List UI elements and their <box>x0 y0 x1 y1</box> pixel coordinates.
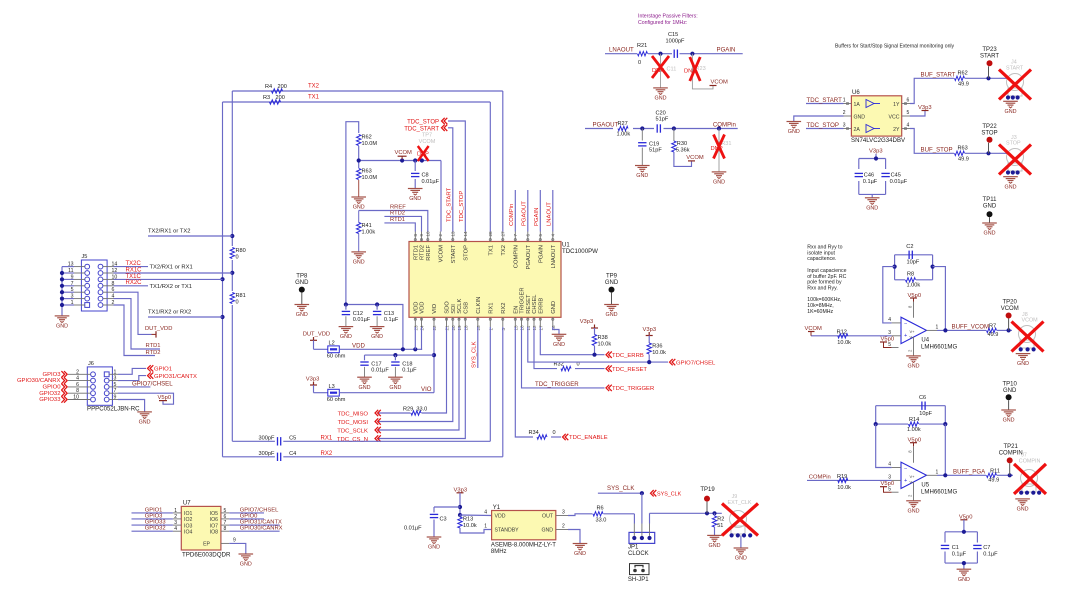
connector J7 DNP <box>1014 452 1046 494</box>
wire J5 row3 TX1C <box>114 274 223 280</box>
svg-text:VDD: VDD <box>420 302 426 314</box>
svg-text:GND: GND <box>574 551 586 557</box>
svg-text:1: 1 <box>114 369 117 375</box>
svg-text:TDC_MOSI: TDC_MOSI <box>338 420 369 426</box>
svg-text:GND: GND <box>353 260 365 266</box>
svg-text:LNAOUT: LNAOUT <box>551 245 557 269</box>
svg-text:10pF: 10pF <box>919 411 932 417</box>
svg-text:C18: C18 <box>402 361 412 367</box>
svg-text:R12: R12 <box>837 330 847 336</box>
capacitor C20 <box>656 111 736 133</box>
svg-text:TDC_STOP: TDC_STOP <box>407 120 439 126</box>
svg-text:BUF_START: BUF_START <box>921 72 956 79</box>
svg-text:TDC_START: TDC_START <box>404 126 439 132</box>
resistor R3 <box>263 95 320 105</box>
svg-text:3: 3 <box>888 474 891 480</box>
svg-text:CSB: CSB <box>463 302 469 314</box>
svg-text:VIO: VIO <box>421 386 432 393</box>
wire VCOM input U4 <box>805 326 892 336</box>
note buffer RC <box>807 245 846 315</box>
wire C46 C45 rails <box>859 156 886 197</box>
ground J3 <box>1003 177 1018 191</box>
svg-text:0.01µF: 0.01µF <box>404 526 422 532</box>
wire VIO rail <box>339 327 436 393</box>
svg-text:R14: R14 <box>909 417 919 423</box>
svg-text:R30: R30 <box>677 141 687 147</box>
svg-text:0.1µF: 0.1µF <box>384 317 399 323</box>
resistor R32 label <box>554 362 580 368</box>
svg-text:DNP: DNP <box>652 68 664 74</box>
svg-text:4: 4 <box>550 234 555 237</box>
svg-text:51pF: 51pF <box>649 148 662 154</box>
wire VCOM to pin2 <box>440 161 442 232</box>
svg-text:PGAOUT: PGAOUT <box>526 245 532 270</box>
svg-text:C5: C5 <box>289 435 296 441</box>
svg-text:RX2: RX2 <box>321 451 333 457</box>
svg-text:R7: R7 <box>989 323 996 329</box>
wire U4 feedback <box>883 255 946 331</box>
svg-text:GPIO32: GPIO32 <box>39 391 60 397</box>
svg-text:RTD2: RTD2 <box>420 245 426 260</box>
svg-text:TDC_ENABLE: TDC_ENABLE <box>569 435 608 441</box>
svg-text:200: 200 <box>276 95 285 101</box>
port GPIO1 <box>148 365 173 372</box>
resistor R41 <box>357 211 376 252</box>
resistor R27 <box>617 121 631 138</box>
resistor R30 <box>672 129 692 167</box>
svg-text:PGAIN: PGAIN <box>717 47 736 54</box>
resistor R63 <box>357 169 378 181</box>
svg-text:R3: R3 <box>263 95 270 101</box>
svg-text:5.36k: 5.36k <box>676 147 690 153</box>
svg-text:GND: GND <box>428 545 440 551</box>
svg-text:EN: EN <box>513 306 519 314</box>
svg-text:2: 2 <box>174 514 177 520</box>
svg-text:R29 33.0: R29 33.0 <box>403 406 427 412</box>
svg-text:GPIO33: GPIO33 <box>39 397 61 403</box>
ground U7 <box>239 554 254 568</box>
ground C19 <box>635 166 650 180</box>
svg-text:0.01µF: 0.01µF <box>353 317 371 323</box>
wire VDD pins <box>415 327 422 349</box>
capacitor C12 <box>342 305 371 327</box>
svg-text:TDC1000PW: TDC1000PW <box>562 248 598 255</box>
svg-text:TDC_STOP: TDC_STOP <box>459 191 465 222</box>
svg-text:GPIO32: GPIO32 <box>145 526 166 532</box>
wire TDC_START <box>448 128 453 232</box>
port TDC_START <box>404 125 447 133</box>
svg-text:GPIO30/CANRX: GPIO30/CANRX <box>240 526 283 532</box>
wire divider mid <box>357 146 441 168</box>
svg-text:C7: C7 <box>983 545 990 551</box>
wire J6 pin9 gnd <box>118 400 145 412</box>
svg-text:0: 0 <box>638 60 641 66</box>
svg-text:V5p0: V5p0 <box>158 395 172 401</box>
capacitor C11 DNP <box>652 54 676 88</box>
svg-text:PGAIN: PGAIN <box>538 245 544 263</box>
svg-text:Y1: Y1 <box>493 505 501 511</box>
svg-text:RX2C: RX2C <box>126 280 143 286</box>
power VCOM flag <box>395 150 413 160</box>
svg-text:3: 3 <box>888 330 891 336</box>
connector JP1 CLOCK <box>628 524 655 558</box>
svg-text:capacitence.: capacitence. <box>807 256 836 262</box>
svg-text:GND: GND <box>984 231 996 237</box>
svg-text:R38: R38 <box>598 335 608 341</box>
ground C8 <box>408 189 423 203</box>
port GPIO3 <box>42 371 67 378</box>
svg-text:1000pF: 1000pF <box>666 39 686 45</box>
svg-text:6: 6 <box>224 514 227 520</box>
svg-text:OUT: OUT <box>542 514 554 520</box>
wire VIO cap rail <box>365 353 435 357</box>
svg-text:7: 7 <box>114 388 117 394</box>
svg-text:300pF: 300pF <box>259 451 275 457</box>
svg-text:1.00k: 1.00k <box>362 230 376 236</box>
svg-text:RTD1: RTD1 <box>390 217 405 223</box>
svg-text:TP8: TP8 <box>296 274 308 280</box>
wire LNAOUT row <box>605 47 743 56</box>
svg-text:V3p3: V3p3 <box>306 377 320 383</box>
wire TX1 vertical <box>222 102 224 457</box>
wire J5 row4 RX2C <box>114 280 192 290</box>
capacitor C15 <box>666 32 736 58</box>
connector J5 <box>68 254 118 311</box>
resistor R81 <box>230 293 246 306</box>
wire J5 ground bus <box>60 267 74 316</box>
resistor R80 <box>230 248 246 261</box>
svg-text:C15: C15 <box>668 32 678 38</box>
svg-text:7: 7 <box>513 234 518 237</box>
svg-text:C4: C4 <box>289 451 296 457</box>
svg-text:VCOM: VCOM <box>419 139 436 145</box>
svg-text:VCOM: VCOM <box>711 80 729 86</box>
svg-text:RX1: RX1 <box>488 303 494 314</box>
wire J5 row1 TX2C <box>114 261 193 271</box>
svg-text:GND: GND <box>371 334 383 340</box>
resistor R4 <box>265 84 320 94</box>
svg-text:U6: U6 <box>852 90 860 96</box>
power V5p0 U5 <box>908 438 922 447</box>
power V5p0 U4 pin5 <box>880 337 899 349</box>
wire VDD rail <box>339 343 422 352</box>
wire TX2 vertical <box>231 91 233 441</box>
ground TP9 <box>604 305 619 319</box>
wire PGAOUT stub <box>527 190 529 232</box>
svg-text:9: 9 <box>114 395 117 401</box>
wire RTD1 <box>384 217 415 231</box>
svg-text:VCOM: VCOM <box>395 150 413 156</box>
svg-text:49.9: 49.9 <box>988 332 999 338</box>
wire COMPin stub <box>514 190 516 232</box>
svg-text:DUT_VDD: DUT_VDD <box>303 332 330 338</box>
svg-text:VCC: VCC <box>889 114 900 120</box>
port TDC_CS_N <box>337 435 381 443</box>
wire Y1 out <box>568 514 634 524</box>
svg-text:8: 8 <box>224 526 227 532</box>
svg-text:BUFF_PGA: BUFF_PGA <box>953 469 986 476</box>
testpoint TP23 <box>980 47 999 78</box>
svg-text:60 ohm: 60 ohm <box>327 354 346 360</box>
svg-text:EXT_CLK: EXT_CLK <box>728 500 752 506</box>
inductor L3 <box>314 384 346 403</box>
svg-text:GND: GND <box>409 196 421 202</box>
resistor R2 <box>712 513 724 535</box>
svg-text:R63: R63 <box>362 169 372 175</box>
wire J5 row6 RTD1 <box>114 299 161 349</box>
svg-text:VIO: VIO <box>432 303 438 313</box>
svg-text:RX2: RX2 <box>501 303 507 314</box>
svg-text:COMPin: COMPin <box>809 475 831 481</box>
power V3p3 Y1 <box>454 488 468 508</box>
svg-text:10.0M: 10.0M <box>362 175 378 181</box>
svg-text:IO6: IO6 <box>210 517 218 523</box>
svg-text:GND: GND <box>854 114 866 120</box>
svg-text:GND: GND <box>983 204 997 210</box>
svg-text:GND: GND <box>958 577 970 583</box>
power DUT_VDD <box>145 326 172 338</box>
svg-text:0.01µF: 0.01µF <box>890 179 908 185</box>
wire RTD2 <box>384 211 421 232</box>
svg-text:DUT_VDD: DUT_VDD <box>145 326 172 332</box>
svg-text:GND: GND <box>713 180 725 186</box>
svg-text:10: 10 <box>73 395 79 401</box>
svg-text:TDC_MISO: TDC_MISO <box>338 412 369 418</box>
svg-text:DNP: DNP <box>417 152 429 158</box>
svg-text:R34: R34 <box>529 430 539 436</box>
svg-text:2: 2 <box>562 524 565 530</box>
svg-text:GND: GND <box>1003 418 1015 424</box>
svg-text:+: + <box>904 478 907 484</box>
svg-text:VDD: VDD <box>413 302 419 314</box>
svg-text:START: START <box>980 54 999 60</box>
svg-text:SYS_CLK: SYS_CLK <box>607 485 634 492</box>
svg-text:GND: GND <box>295 280 309 286</box>
svg-text:GND: GND <box>340 334 352 340</box>
svg-text:C17: C17 <box>371 361 381 367</box>
svg-text:TX1/RX2 or TX1: TX1/RX2 or TX1 <box>150 284 192 290</box>
svg-text:GND: GND <box>866 205 878 211</box>
svg-text:5: 5 <box>538 234 543 237</box>
svg-text:GND: GND <box>709 543 721 549</box>
testpoint TP9 <box>605 274 619 305</box>
svg-text:1: 1 <box>484 524 487 530</box>
svg-text:VCOM: VCOM <box>1022 318 1039 324</box>
svg-text:0: 0 <box>236 300 239 306</box>
svg-text:JP1: JP1 <box>628 544 639 550</box>
svg-text:DNP: DNP <box>711 146 723 152</box>
svg-text:5: 5 <box>907 110 910 116</box>
testpoint TP10 <box>1003 382 1018 411</box>
svg-text:CLOCK: CLOCK <box>628 551 649 557</box>
svg-text:10.0k: 10.0k <box>463 523 477 529</box>
svg-text:49.9: 49.9 <box>958 156 969 162</box>
svg-text:RTD2: RTD2 <box>390 211 405 217</box>
svg-text:IO8: IO8 <box>210 529 218 535</box>
svg-text:TDC_START: TDC_START <box>447 187 453 222</box>
svg-text:RESET: RESET <box>526 294 532 314</box>
wire U7 right GPIO31/CANTX <box>229 520 282 526</box>
svg-text:TX2: TX2 <box>308 84 320 90</box>
power V5p0 J6 <box>158 395 172 401</box>
svg-text:R80: R80 <box>236 248 246 254</box>
svg-text:2: 2 <box>843 110 846 116</box>
ground U1 <box>552 334 567 348</box>
svg-text:1A: 1A <box>854 102 861 108</box>
svg-text:2: 2 <box>438 234 443 237</box>
op-amp U1 TDC1000PW <box>409 231 598 331</box>
capacitor C1 <box>941 545 967 557</box>
svg-text:4: 4 <box>76 376 79 382</box>
svg-text:TP10: TP10 <box>1003 382 1018 388</box>
port TDC_RESET <box>606 365 647 372</box>
svg-text:IO2: IO2 <box>184 517 192 523</box>
ground Y1 <box>573 544 588 558</box>
power V3p3 R38 <box>580 319 598 334</box>
wire TX2 net <box>232 91 503 232</box>
svg-text:V3p3: V3p3 <box>869 149 883 155</box>
port TDC_MISO <box>338 410 381 418</box>
oscillator Y1 <box>484 505 568 555</box>
svg-text:SH-JP1: SH-JP1 <box>628 577 649 583</box>
svg-text:J6: J6 <box>88 361 94 367</box>
svg-text:PGAOUT: PGAOUT <box>522 201 528 226</box>
svg-text:51: 51 <box>717 523 723 529</box>
svg-text:Buffers for Start/Stop Signal: Buffers for Start/Stop Signal External m… <box>835 44 955 50</box>
capacitor C2 <box>906 244 920 265</box>
svg-text:GPIO3: GPIO3 <box>42 372 61 378</box>
svg-text:TRIGGER: TRIGGER <box>520 287 526 313</box>
svg-text:GND: GND <box>605 280 619 286</box>
wire J5 row7 RTD2 <box>114 305 161 356</box>
svg-text:TP19: TP19 <box>700 487 715 493</box>
ground R31 <box>712 172 727 186</box>
junction dots left column <box>220 234 234 319</box>
svg-text:9: 9 <box>419 234 424 237</box>
connector J3 DNP <box>999 135 1031 175</box>
wire GPIO7/CHSEL <box>528 327 668 364</box>
svg-text:GND: GND <box>541 528 553 534</box>
svg-text:TDC_TRIGGER: TDC_TRIGGER <box>612 386 654 392</box>
svg-text:R19: R19 <box>837 474 847 480</box>
svg-text:EP: EP <box>203 542 210 548</box>
testpoint TP19 <box>700 487 715 514</box>
svg-text:TDC_START: TDC_START <box>807 97 843 104</box>
svg-text:LMH6601MG: LMH6601MG <box>921 343 957 350</box>
svg-text:GND: GND <box>240 562 252 568</box>
svg-text:LNAOUT: LNAOUT <box>609 47 634 54</box>
resistor R13 <box>458 515 492 533</box>
resistor R34 label <box>529 430 556 436</box>
svg-text:RX1: RX1 <box>321 435 333 441</box>
ground U5 <box>906 501 921 515</box>
ground C46 <box>865 198 880 212</box>
wire VDD cap rail <box>344 302 403 349</box>
ground U4 <box>906 356 921 370</box>
svg-text:RTD2: RTD2 <box>146 350 161 356</box>
svg-text:10.0k: 10.0k <box>837 340 851 346</box>
wire TDC_TRIGGER <box>522 327 605 388</box>
wire PGAOUT row <box>585 122 738 131</box>
label PGAOUT vertical <box>522 201 528 226</box>
wire COMPin input U5 <box>807 475 892 481</box>
svg-text:PGAOUT: PGAOUT <box>593 122 619 129</box>
power VCOM R23 <box>710 80 729 86</box>
svg-text:R6: R6 <box>597 506 604 512</box>
ground C3 <box>427 537 442 551</box>
svg-text:4: 4 <box>888 462 891 468</box>
wire U6 gnd <box>794 116 844 122</box>
port TDC_ERRB <box>606 352 644 360</box>
svg-text:0.01µF: 0.01µF <box>422 179 440 185</box>
label COMPin vertical <box>509 204 515 226</box>
svg-text:4: 4 <box>174 526 177 532</box>
capacitor C13 <box>373 305 399 327</box>
svg-text:8MHz: 8MHz <box>491 549 507 555</box>
ground R2 <box>707 535 722 549</box>
resistor R6 <box>593 506 606 524</box>
svg-text:COMPIN: COMPIN <box>1019 458 1041 464</box>
note interstage filters <box>638 14 698 27</box>
svg-text:5: 5 <box>888 487 891 493</box>
wire BUFF_PGA <box>937 469 1013 478</box>
resistor R8 <box>906 271 921 288</box>
svg-text:Rxx and Ryy.: Rxx and Ryy. <box>807 285 837 291</box>
wire R62 top <box>346 122 359 305</box>
port GPIO33 <box>39 396 67 403</box>
svg-text:SYS_CLK: SYS_CLK <box>657 491 682 497</box>
svg-text:3: 3 <box>843 123 846 129</box>
resistor R62 buf <box>955 71 969 88</box>
svg-text:COMPin: COMPin <box>713 121 736 128</box>
svg-text:U7: U7 <box>183 501 191 507</box>
resistor R11 <box>987 468 1000 483</box>
svg-text:VDD: VDD <box>352 343 365 350</box>
ground C17 <box>357 377 372 391</box>
svg-text:200: 200 <box>278 84 287 90</box>
svg-text:−: − <box>904 466 907 472</box>
svg-text:GND: GND <box>389 385 401 391</box>
svg-text:SDI: SDI <box>451 304 457 314</box>
svg-text:R63: R63 <box>958 146 968 152</box>
wire CLKIN stub <box>477 327 479 368</box>
testpoint TP20 <box>1001 299 1019 330</box>
wire U7 left GPIO1 <box>132 507 173 513</box>
shunt SH-JP1 <box>628 564 649 583</box>
svg-text:START: START <box>451 245 457 264</box>
wire TDC_STOP U6 <box>806 122 844 129</box>
svg-text:R4: R4 <box>265 84 272 90</box>
wire TDC_MISO <box>378 327 447 415</box>
svg-text:GND: GND <box>359 385 371 391</box>
svg-text:STOP: STOP <box>981 130 997 136</box>
wire J6 pin1 GPIO1 <box>118 368 146 374</box>
capacitor C45 <box>881 173 907 185</box>
svg-text:1.00k: 1.00k <box>907 427 921 433</box>
svg-text:0.1µF: 0.1µF <box>402 368 417 374</box>
svg-text:TX2: TX2 <box>501 245 507 256</box>
svg-text:VCOM: VCOM <box>438 245 444 263</box>
svg-text:TDC_CS_N: TDC_CS_N <box>337 437 368 443</box>
testpoint TP22 <box>981 124 997 154</box>
svg-text:IO3: IO3 <box>184 523 192 529</box>
power V5p0 U4 <box>908 293 922 302</box>
svg-text:RREF: RREF <box>426 245 432 261</box>
ground J4 <box>1003 101 1018 115</box>
capacitor C17 <box>360 355 389 377</box>
svg-text:V3p3: V3p3 <box>580 319 594 325</box>
svg-text:TP21: TP21 <box>1004 444 1019 450</box>
